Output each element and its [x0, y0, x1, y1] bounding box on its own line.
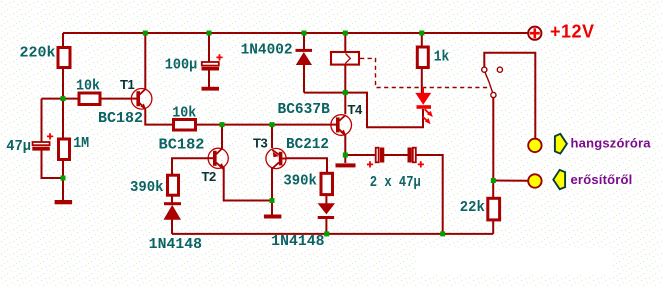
- junction relay / diode / T4 collector node: [343, 90, 348, 95]
- switch NO contact circle: [497, 67, 502, 72]
- diode D2 1N4148 triangle: [164, 205, 182, 220]
- LED D4 triangle: [415, 93, 431, 105]
- svg-text:2 x 47µ: 2 x 47µ: [370, 175, 421, 191]
- svg-text:100µ: 100µ: [165, 58, 198, 74]
- ground bar under 100u: [202, 87, 220, 91]
- resistor R6 390k (T3 base): [321, 173, 333, 194]
- wire 10k2 right to T4 base: [196, 124, 331, 126]
- wire 10k to T1 base: [101, 98, 131, 100]
- wire 390k1 to diode 1N4148: [171, 197, 173, 203]
- capacitor C4 47u left plate (solid): [408, 148, 412, 163]
- wire diode1 to bottom rail: [171, 219, 173, 234]
- +12V terminal circle: [528, 27, 541, 40]
- wire 1N4002 column: [303, 33, 305, 49]
- switch arm: [485, 72, 493, 92]
- svg-text:T3: T3: [253, 135, 268, 150]
- resistor R2 10k horizontal: [79, 93, 100, 105]
- speaker arrow icon (points right): [555, 134, 567, 154]
- svg-text:1N4148: 1N4148: [149, 237, 202, 253]
- junction 22k / amp output node: [491, 178, 496, 183]
- wire T3 base to 390k2: [286, 158, 327, 172]
- junction T3 collector / T4 base node: [270, 122, 275, 127]
- wire relay node horizontal and down to LED bottom: [304, 93, 423, 128]
- wire T4 collector: [344, 93, 346, 114]
- wire 390k2 to diode2: [325, 196, 327, 203]
- resistor R7 1k: [417, 47, 428, 68]
- resistor R4 10k horizontal (T1 emitter): [174, 120, 196, 131]
- capacitor C1 100u top plate: [202, 62, 219, 66]
- wire T2 collector: [221, 125, 223, 149]
- wire switch pole down to junction node: [492, 98, 494, 181]
- relay dashed link to switch: [360, 58, 488, 87]
- transistor T2 collector/emitter legs: [216, 149, 223, 170]
- connector J1 speaker circle: [528, 139, 541, 152]
- wire top +12V rail: [63, 32, 528, 34]
- wire junction down to 22k and 22k to bottom rail: [492, 181, 494, 199]
- wire junction to amp connector: [493, 180, 528, 182]
- resistor R1 220k: [58, 48, 70, 68]
- wire 220k column: rail to 220k, 220k to node A, node A to 1M, 1M to junction, junction to ground: [62, 33, 64, 47]
- capacitor C3 47u right plate (solid): [380, 148, 384, 163]
- transistor T1 collector/emitter legs: [140, 89, 146, 110]
- connector J2 amplifier circle: [528, 174, 541, 187]
- diode D3 1N4148 triangle: [318, 203, 335, 214]
- +12V terminal plus: [530, 28, 540, 38]
- junction 1M / 47u ground node: [61, 176, 66, 181]
- ground bar under 1M node: [55, 200, 73, 204]
- transistor T2 BC182 circle: [208, 148, 228, 168]
- svg-text:1k: 1k: [434, 50, 450, 66]
- wire T1 emitter down and right to 10k2: [145, 110, 173, 125]
- transistor T4 base bar: [336, 117, 340, 132]
- erased watermark white patch: [416, 248, 612, 274]
- resistor R5 390k (T2 base): [168, 175, 179, 195]
- transistor T2 base bar: [213, 151, 217, 166]
- wire switch top rail and down to speaker connector: [484, 53, 535, 138]
- junction T2/T3 emitter ground node: [270, 198, 275, 203]
- svg-text:220k: 220k: [20, 46, 56, 62]
- transistor T2 base lead into circle: [208, 157, 213, 159]
- wire node A horizontal: cap corner to 10k left: [42, 98, 79, 100]
- wire T3 emitter to ground junction: [271, 167, 273, 215]
- junction relay / rail: [343, 31, 348, 36]
- relay chevron: [345, 54, 350, 64]
- wire T2 emitter down to ground junction: [224, 167, 272, 201]
- svg-text:T1: T1: [120, 77, 135, 92]
- transistor T2 emitter arrow: [218, 163, 224, 170]
- plus sign at 47u: [47, 133, 53, 139]
- wire diode2 to bottom rail: [325, 219, 327, 234]
- transistor T4 collector/emitter legs: [339, 115, 345, 136]
- svg-text:+12V: +12V: [550, 22, 595, 42]
- svg-text:1M: 1M: [73, 136, 89, 152]
- diode D1 1N4002 cathode bar: [296, 49, 313, 52]
- svg-text:BC637B: BC637B: [278, 102, 331, 118]
- svg-text:BC182: BC182: [159, 138, 205, 154]
- diode D3 1N4148 cathode bar: [318, 216, 334, 219]
- wire caps output down to bottom rail: [416, 155, 443, 234]
- transistor T4 BC637 circle: [331, 115, 352, 136]
- svg-text:hangszóróra: hangszóróra: [571, 136, 652, 151]
- svg-text:T2: T2: [202, 169, 217, 184]
- ground bar under T2/T3 emitters: [264, 215, 282, 219]
- transistor T3 BC212 circle: [266, 148, 286, 168]
- transistor T3 base lead into circle: [282, 158, 286, 160]
- switch pole contact circle: [482, 67, 487, 72]
- plus sign at C3: [367, 161, 373, 167]
- capacitor C2 47u bottom plate: [32, 147, 50, 151]
- transistor T1 base bar: [136, 91, 140, 106]
- svg-text:BC182: BC182: [98, 111, 143, 127]
- junction T1 collector / rail: [143, 31, 148, 36]
- capacitor C3 47u left plate (open): [376, 148, 379, 163]
- resistor R8 22k: [488, 198, 500, 220]
- transistor T4 base lead into circle: [331, 124, 336, 126]
- transistor T3 collector/emitter legs: [272, 150, 279, 168]
- svg-text:47µ: 47µ: [6, 139, 31, 155]
- wire T3 collector: [271, 125, 273, 148]
- plus sign at C4: [418, 161, 424, 167]
- svg-text:10k: 10k: [76, 78, 100, 94]
- junction node A: [61, 96, 66, 101]
- junction 1N4002 / rail: [302, 31, 307, 36]
- junction 1k / rail: [419, 31, 424, 36]
- relay K1 coil box: [331, 52, 359, 65]
- capacitor C1 100u bottom plate: [202, 67, 220, 71]
- LED D4 cathode bar: [417, 105, 432, 109]
- LED D4 emission arrow 2: [422, 116, 428, 122]
- capacitor C4 47u right plate (open): [413, 148, 416, 163]
- transistor T1 base lead into circle: [131, 98, 137, 100]
- junction 100u / rail: [207, 31, 212, 36]
- plus sign at 100u: [216, 54, 222, 60]
- junction T2 collector node: [220, 122, 225, 127]
- wire T1 collector to rail: [144, 33, 146, 89]
- junction T4 emitter node: [343, 153, 348, 158]
- LED D4 feed wire: [422, 87, 424, 94]
- transistor T1 emitter arrow: [140, 104, 146, 111]
- svg-text:390k: 390k: [283, 173, 317, 189]
- LED D4 emission arrow 1: [425, 109, 431, 115]
- svg-text:1N4148: 1N4148: [271, 234, 324, 250]
- transistor T4 emitter arrow: [340, 130, 346, 137]
- svg-text:erősítőről: erősítőről: [571, 172, 633, 187]
- capacitor C2 47u top plate: [33, 142, 50, 145]
- ground bar under T4 emitter: [336, 163, 356, 167]
- amplifier arrow icon (points left): [553, 170, 565, 189]
- junction diode2 / bottom rail: [324, 231, 329, 236]
- svg-text:10k: 10k: [172, 105, 196, 121]
- svg-text:BC212: BC212: [286, 137, 329, 153]
- transistor T1 BC182 circle: [131, 89, 152, 110]
- svg-text:390k: 390k: [130, 180, 164, 196]
- wire T2 base from 390k: [172, 158, 209, 174]
- junction caps output / bottom rail: [440, 231, 445, 236]
- svg-text:T4: T4: [348, 102, 364, 117]
- transistor T3 emitter arrow (PNP, points toward base bar): [273, 152, 279, 157]
- transistor T3 base bar: [279, 152, 283, 166]
- wire T4 emitter to junction, ground stub, and to caps: [344, 135, 346, 164]
- switch lower contact circle: [491, 92, 496, 97]
- wire between 2x47u caps: [384, 154, 408, 156]
- diode D2 1N4148 cathode bar: [164, 202, 181, 205]
- wire 100u column: [208, 33, 210, 62]
- wire 1k column: [421, 33, 423, 47]
- svg-text:1N4002: 1N4002: [241, 43, 293, 59]
- wire relay coil leads: [344, 33, 346, 52]
- wire 47u branch: down from node A to cap, cap to junction at 1M bottom: [41, 99, 43, 142]
- resistor R3 1M: [59, 139, 70, 160]
- svg-text:22k: 22k: [460, 200, 485, 216]
- diode D1 1N4002 triangle: [296, 52, 312, 65]
- wire bottom rail: [172, 233, 493, 235]
